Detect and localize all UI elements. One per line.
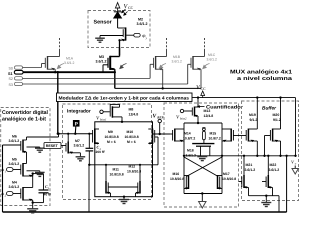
- svg-text:10.8/7.2: 10.8/7.2: [209, 136, 221, 140]
- svg-text:bias1: bias1: [100, 118, 107, 122]
- svg-text:M17: M17: [223, 172, 230, 176]
- svg-text:3.6/1.2: 3.6/1.2: [172, 60, 182, 64]
- pin out sensor: [134, 33, 140, 37]
- DAC dashed box: [1, 108, 50, 206]
- buffer ground: [265, 195, 267, 197]
- transistor M16 horizontal: [192, 144, 214, 156]
- bulk arrow M1C: [203, 64, 210, 69]
- amp tail ground: [123, 196, 125, 198]
- transistor M1C: [188, 38, 205, 88]
- transistor M22: [262, 156, 279, 212]
- svg-text:M1A: M1A: [66, 57, 74, 61]
- ground M7: [76, 157, 86, 161]
- Vcc arrow modulator: [201, 91, 205, 98]
- clock box P: [73, 120, 80, 127]
- wire S0: [23, 67, 42, 69]
- ground M6: [35, 148, 45, 152]
- bias terminal Vbias1: [100, 110, 103, 113]
- svg-text:CC: CC: [128, 6, 134, 10]
- transistor M10: [148, 129, 154, 145]
- svg-text:10.8/10.8: 10.8/10.8: [170, 177, 184, 181]
- latch bottom rail: [184, 193, 222, 195]
- svg-text:3.6/1.2: 3.6/1.2: [9, 162, 20, 166]
- gate tie M11 M12: [108, 186, 138, 188]
- clock pin latch: [203, 128, 206, 131]
- transistor M2: [100, 27, 134, 55]
- svg-text:Buffer: Buffer: [262, 106, 277, 112]
- svg-text:3.6/1.2: 3.6/1.2: [9, 139, 20, 143]
- transistor M1A: [42, 38, 60, 72]
- svg-text:M4: M4: [12, 181, 17, 185]
- svg-text:12/4.8: 12/4.8: [129, 113, 139, 117]
- svg-text:M5: M5: [12, 158, 17, 162]
- wire S3: [23, 83, 188, 85]
- wire mux to integrator (drop): [57, 72, 59, 134]
- svg-text:M8: M8: [129, 108, 134, 112]
- transistor M8: [110, 104, 122, 121]
- transistor M11: [106, 165, 111, 197]
- svg-text:M12: M12: [129, 165, 136, 169]
- svg-text:Sensor: Sensor: [94, 20, 113, 26]
- terminal VREF: [158, 119, 161, 122]
- Buffer dashed box: [242, 101, 299, 201]
- wire S2: [23, 77, 151, 79]
- transistor M18: [218, 175, 223, 189]
- wire Vcc stem sensor: [117, 8, 119, 13]
- pin RESET: [44, 143, 61, 149]
- transistor M6: [3, 134, 59, 161]
- svg-text:M20: M20: [273, 113, 280, 117]
- tail current arrow: [201, 194, 203, 202]
- svg-text:12/4.8: 12/4.8: [204, 114, 214, 118]
- svg-text:3.6/1.2: 3.6/1.2: [9, 185, 20, 189]
- svg-text:M3: M3: [99, 55, 104, 59]
- svg-text:3.6/1.2: 3.6/1.2: [269, 168, 280, 172]
- rail quantifier/buffer mid: [184, 155, 296, 157]
- Integrador dashed box: [63, 104, 152, 200]
- bias terminal Vbias2: [180, 109, 183, 112]
- svg-text:M19: M19: [249, 113, 256, 117]
- svg-text:M10: M10: [127, 130, 134, 134]
- sensor dashed box: [88, 11, 150, 48]
- svg-text:3.6/1.2: 3.6/1.2: [137, 22, 148, 26]
- Cuantificador dashed box: [164, 103, 239, 207]
- svg-text:3.6/1.2: 3.6/1.2: [207, 58, 217, 62]
- svg-text:Modulador ΣΔ de 1er-orden y 1-: Modulador ΣΔ de 1er-orden y 1-bit por ca…: [59, 96, 190, 101]
- output node bs: [285, 155, 287, 157]
- svg-text:Integrador: Integrador: [67, 109, 91, 115]
- capacitor C1: [33, 174, 49, 203]
- ground M5: [35, 172, 45, 176]
- svg-text:S1: S1: [8, 72, 13, 76]
- svg-text:CC: CC: [201, 87, 207, 91]
- transistor M12: [136, 165, 141, 197]
- svg-text:M11: M11: [113, 168, 120, 172]
- transistor M1B: [150, 38, 166, 88]
- svg-text:REF: REF: [157, 116, 164, 120]
- svg-text:3.6/1.2: 3.6/1.2: [96, 60, 107, 64]
- ground latch common: [197, 157, 207, 161]
- transistor M5: [13, 161, 40, 177]
- svg-text:M13: M13: [204, 109, 211, 113]
- transistor M19: [237, 98, 258, 156]
- svg-text:10.8/10.8: 10.8/10.8: [222, 177, 236, 181]
- svg-text:Cuantificador: Cuantificador: [206, 105, 243, 111]
- svg-text:M14: M14: [184, 132, 191, 136]
- transistor M20: [265, 98, 281, 156]
- bulk arrow M1A: [57, 64, 64, 69]
- photon arrows: [122, 9, 128, 15]
- bs feedback line bottom: [3, 211, 287, 213]
- bulk arrow M3: [120, 64, 127, 69]
- transistor M3: [103, 56, 120, 89]
- svg-text:M1C: M1C: [208, 53, 216, 57]
- svg-text:3.6/1.2: 3.6/1.2: [74, 143, 85, 147]
- svg-text:10.8/10.8: 10.8/10.8: [127, 169, 141, 173]
- node M1A source on S1 bus: [54, 71, 56, 73]
- svg-text:9/1.2: 9/1.2: [273, 118, 281, 122]
- transistor M14: [171, 129, 184, 142]
- integrator output wire: [153, 133, 171, 135]
- title box Modulador: [57, 93, 193, 102]
- transistor M17: [184, 175, 189, 189]
- svg-text:M18: M18: [187, 149, 194, 153]
- svg-text:RESET: RESET: [46, 144, 59, 148]
- svg-text:bias2: bias2: [180, 117, 187, 121]
- svg-text:M22: M22: [270, 163, 277, 167]
- op-amp frame: [95, 122, 153, 197]
- photodiode D1: [114, 12, 122, 28]
- svg-text:S3: S3: [9, 83, 13, 87]
- svg-text:analógico de 1-bit: analógico de 1-bit: [2, 117, 46, 123]
- ground sensor: [95, 38, 105, 42]
- svg-text:M2: M2: [138, 18, 143, 22]
- svg-text:M7: M7: [75, 139, 80, 143]
- svg-text:3.6/1.2: 3.6/1.2: [245, 168, 256, 172]
- svg-text:M21: M21: [246, 163, 253, 167]
- transistor M4: [13, 174, 33, 209]
- wire S1 bus bold: [23, 71, 115, 73]
- transistor M7: [66, 134, 80, 157]
- svg-text:M6: M6: [12, 135, 17, 139]
- svg-text:10.8/7.2: 10.8/7.2: [183, 136, 195, 140]
- svg-text:10.8/10.8: 10.8/10.8: [105, 135, 119, 139]
- svg-text:M1B: M1B: [173, 55, 181, 59]
- svg-text:200 fF: 200 fF: [96, 150, 106, 154]
- node M3 source on S1 bus: [114, 71, 116, 73]
- svg-text:M = 6: M = 6: [107, 140, 116, 144]
- bulk arrow M1B: [159, 64, 166, 69]
- svg-text:S2: S2: [9, 77, 13, 81]
- transistor M9: [93, 129, 99, 145]
- ground DAC bottom: [27, 209, 38, 213]
- svg-text:9/1.2: 9/1.2: [250, 118, 258, 122]
- svg-text:S0: S0: [9, 66, 13, 70]
- svg-text:M = 6: M = 6: [127, 140, 136, 144]
- svg-text:Convertidor digital: Convertidor digital: [2, 110, 48, 116]
- output terminal Vo: [294, 155, 296, 157]
- Vcc terminal sensor: [115, 3, 119, 8]
- svg-text:M16: M16: [173, 172, 180, 176]
- svg-text:M15: M15: [210, 132, 217, 136]
- cross coupling X: [184, 157, 222, 177]
- svg-text:MUX analógico 4x1: MUX analógico 4x1: [230, 69, 292, 75]
- svg-text:3.6/1.2: 3.6/1.2: [186, 153, 196, 157]
- svg-text:M9: M9: [108, 130, 113, 134]
- node sensor column to M3: [119, 48, 121, 57]
- svg-text:10.8/10.8: 10.8/10.8: [110, 172, 124, 176]
- svg-text:40 fF: 40 fF: [44, 192, 52, 196]
- transistor M13: [192, 98, 198, 123]
- svg-text:3.6/1.2: 3.6/1.2: [64, 61, 74, 65]
- wire C2 bottom node: [89, 164, 158, 166]
- latch frame: [184, 123, 222, 194]
- capacitor C2: [86, 134, 94, 165]
- wire integrator input line: [58, 133, 93, 135]
- Vcc rail modulator: [192, 97, 296, 99]
- svg-text:a nivel columna: a nivel columna: [237, 76, 293, 82]
- transistor M15: [222, 129, 237, 142]
- wire mux output bus: [115, 87, 201, 89]
- svg-text:10.8/10.8: 10.8/10.8: [125, 135, 139, 139]
- transistor M21: [239, 156, 267, 196]
